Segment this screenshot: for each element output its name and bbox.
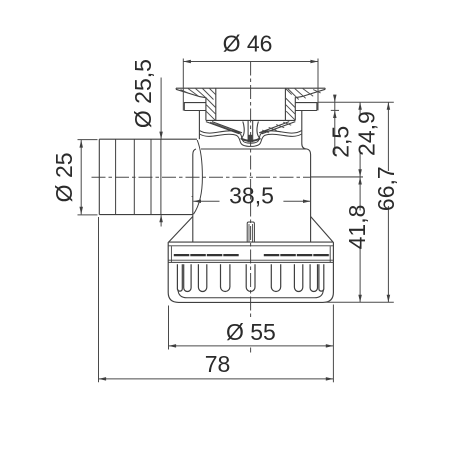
barb ridge 1 <box>115 139 117 214</box>
strainer cap top edge <box>168 241 333 243</box>
upper body neck left edge <box>198 111 200 140</box>
strainer slots <box>177 264 323 291</box>
svg-text:Ø 25,5: Ø 25,5 <box>130 59 156 128</box>
shaft stub above base <box>247 222 254 242</box>
dimension D25 <box>51 140 98 215</box>
barb ridge 3 <box>150 139 152 214</box>
dimension D55 <box>169 306 334 350</box>
flange neck inner wall left <box>215 88 217 120</box>
svg-text:78: 78 <box>205 351 231 377</box>
svg-text:2,5: 2,5 <box>327 126 353 158</box>
barb ridge 2 <box>133 139 135 214</box>
svg-text:66,7: 66,7 <box>373 166 399 211</box>
dimension 38,5 <box>192 183 311 209</box>
flange brim top <box>176 87 325 89</box>
extension line mounting plane <box>318 101 394 103</box>
flange brim left wedge <box>176 88 206 120</box>
dimension D46 <box>183 31 318 111</box>
dimension 78 <box>99 217 334 382</box>
dimension D25,5 <box>130 59 163 226</box>
valve funnel left wall <box>206 122 242 134</box>
strainer cap inner wall ticks <box>171 246 330 262</box>
strainer cap right side <box>332 242 334 262</box>
svg-text:Ø 55: Ø 55 <box>226 319 276 345</box>
strainer cap left side <box>167 242 169 262</box>
dimension 66,7 <box>373 102 399 302</box>
dimension 2,5 <box>327 95 353 158</box>
barb-body intersection curve <box>194 140 203 214</box>
body cylinder right edge <box>310 155 312 243</box>
centerline outlet axis <box>92 176 364 178</box>
base flare right diagonal <box>311 217 334 243</box>
flange brim right wedge <box>295 88 325 120</box>
dimension 41,8 <box>344 177 370 302</box>
svg-text:41,8: 41,8 <box>344 205 370 250</box>
svg-text:Ø 46: Ø 46 <box>223 31 273 57</box>
body shoulder line <box>193 149 311 155</box>
extension line outlet axis right <box>311 176 363 178</box>
flange clamp lip left <box>184 103 206 111</box>
svg-text:38,5: 38,5 <box>229 183 274 209</box>
dimension 24,9 <box>354 102 380 177</box>
extension line bottom right <box>326 301 394 303</box>
body cylinder left edge <box>192 155 194 243</box>
upper body neck right edge <box>302 111 307 150</box>
svg-text:Ø 25: Ø 25 <box>51 152 77 202</box>
strainer seam thick line <box>174 254 330 256</box>
valve center tube <box>241 121 261 143</box>
valve seat S-line lower <box>200 134 302 146</box>
strainer cap second line <box>168 245 333 247</box>
flange hatch right <box>286 89 321 121</box>
flange neck inner wall right <box>284 88 286 120</box>
barb ridge 4 <box>160 139 162 214</box>
valve funnel right wall <box>259 122 295 134</box>
flange clamp lip right <box>295 103 317 111</box>
svg-text:24,9: 24,9 <box>354 111 380 156</box>
flange hatch left <box>181 89 216 121</box>
body top plate under flange <box>206 119 295 121</box>
strainer band line 1 <box>168 259 333 261</box>
strainer band line 2 <box>168 261 333 263</box>
centerline vertical axis <box>250 62 252 353</box>
strainer bottom outer <box>168 262 333 302</box>
valve seat S-line upper <box>200 131 302 144</box>
hose barb outline <box>99 139 197 214</box>
strainer bottom inner line <box>178 289 324 298</box>
base flare left diagonal <box>169 217 193 243</box>
